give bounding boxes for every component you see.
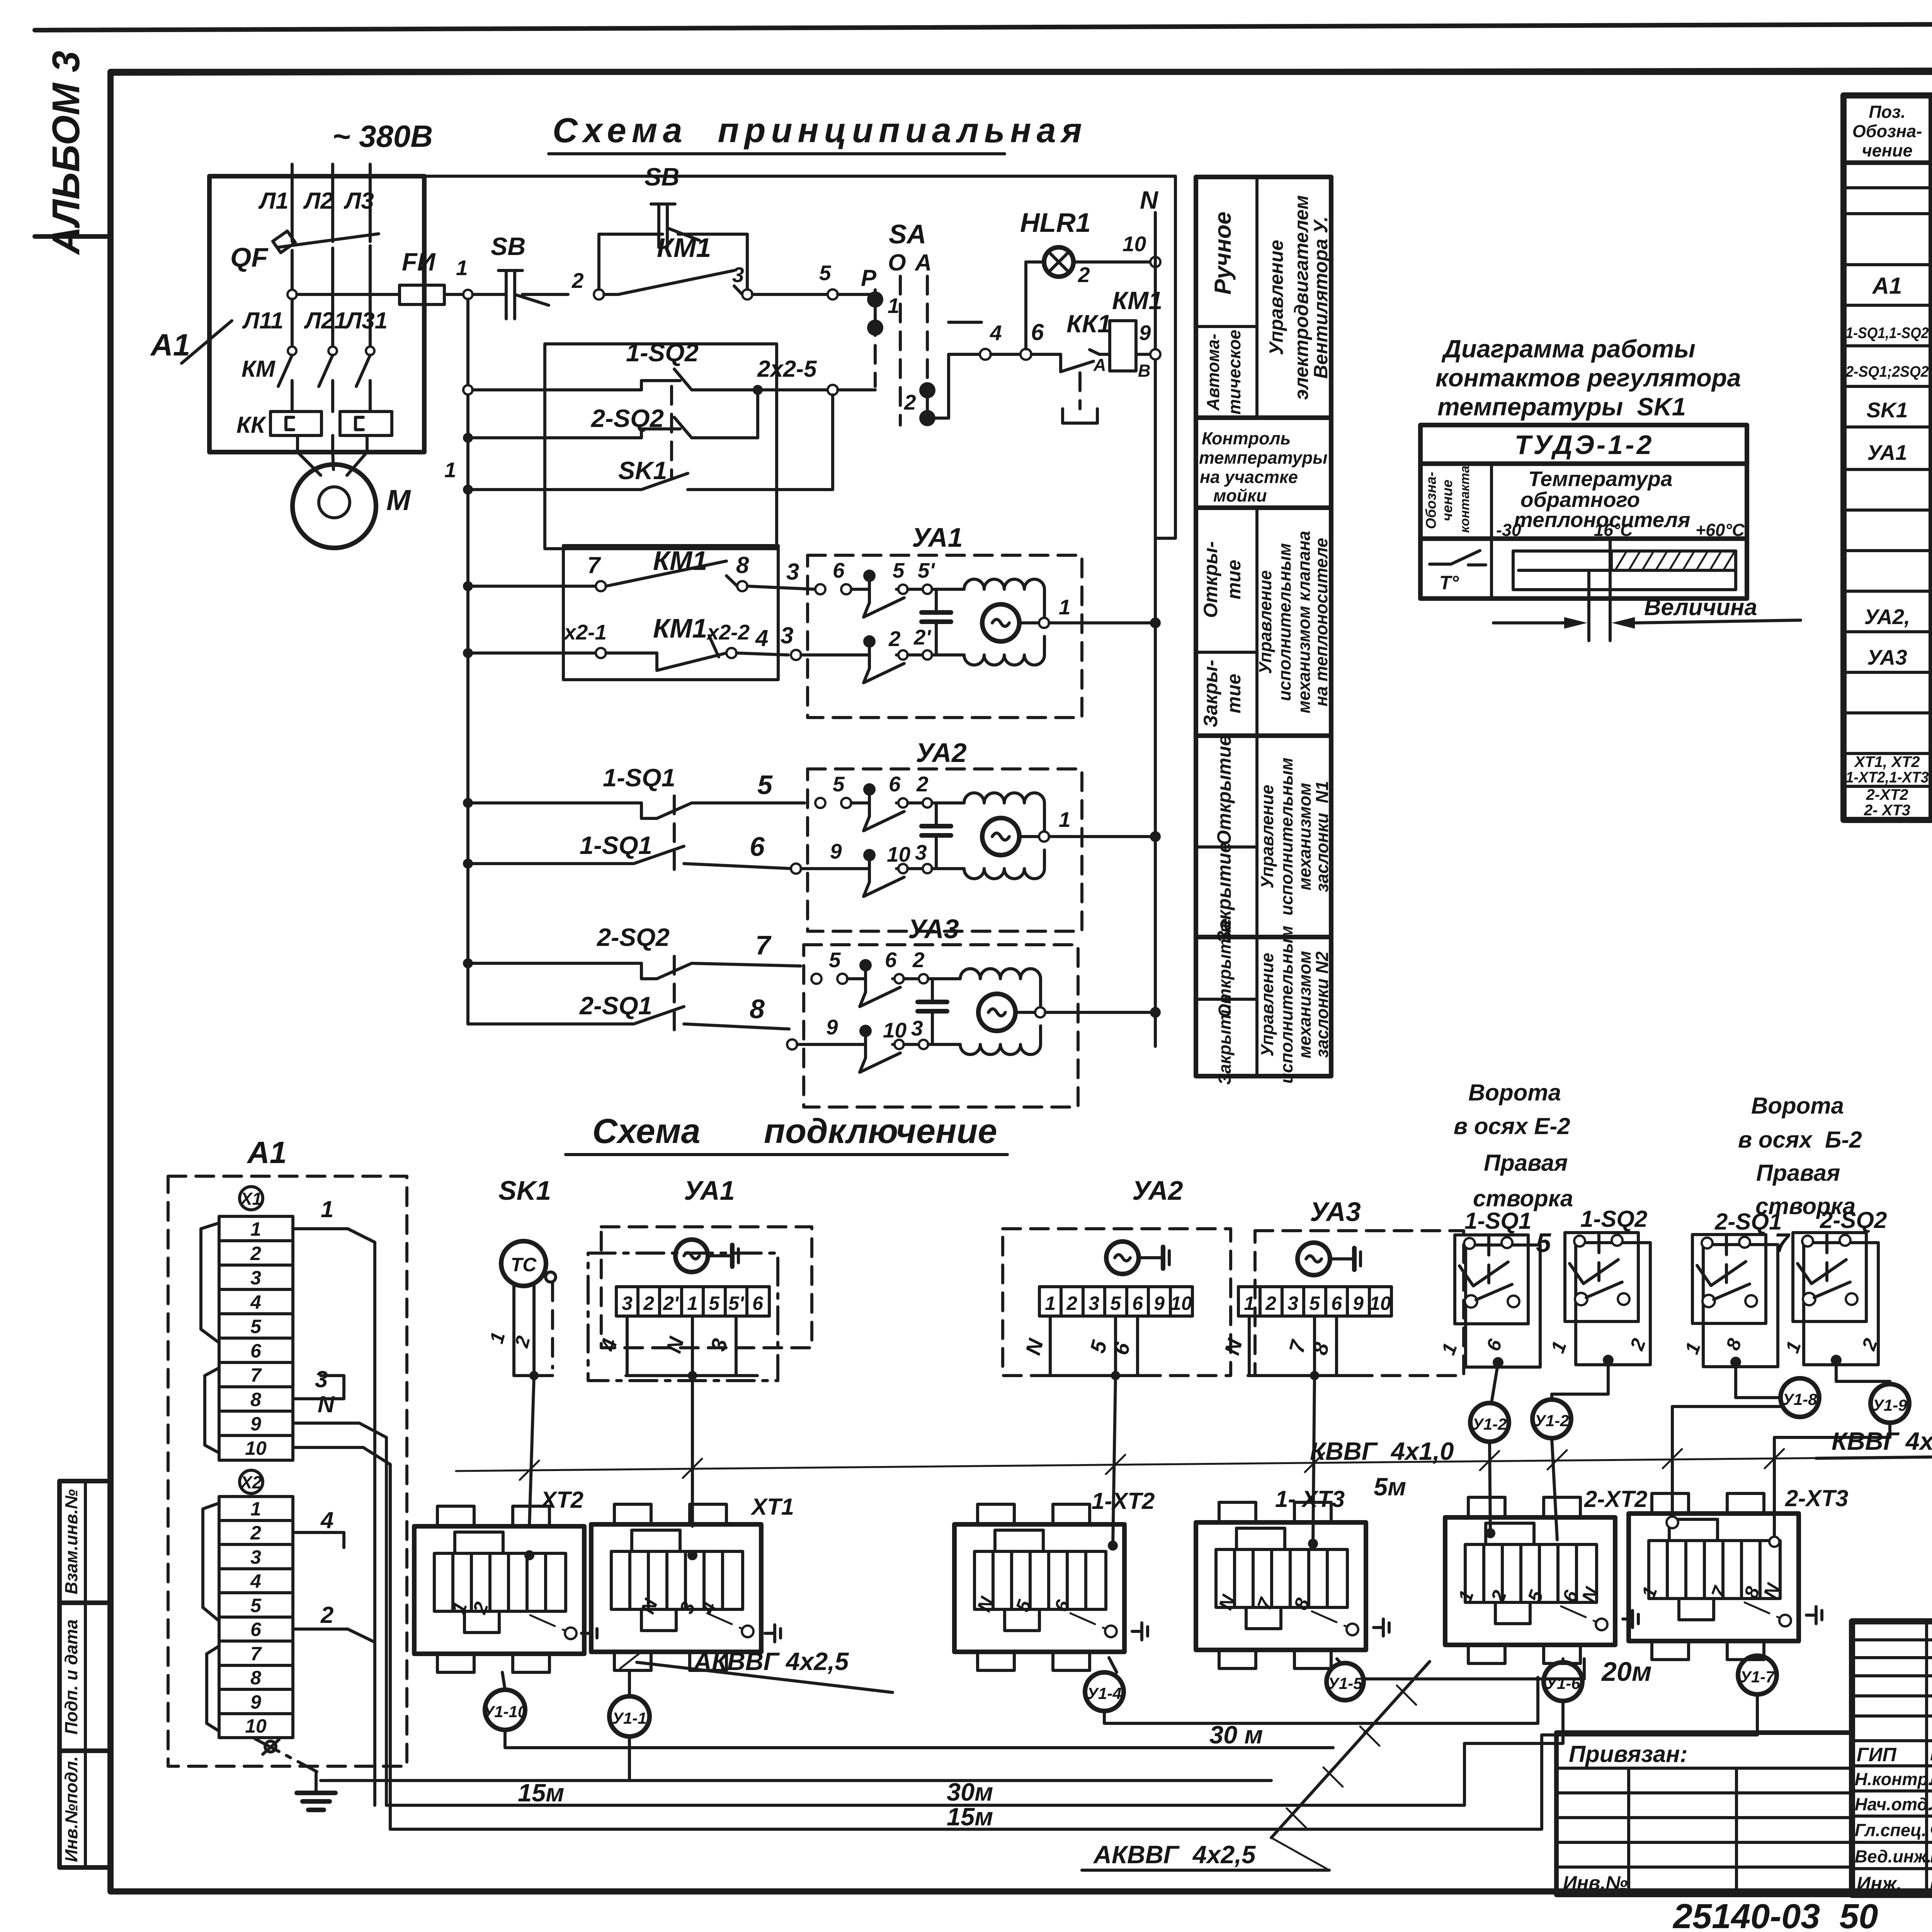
svg-text:УА2: УА2 xyxy=(1132,1175,1183,1206)
svg-text:Т°: Т° xyxy=(1439,572,1459,594)
svg-text:температуры: температуры xyxy=(1199,448,1328,468)
svg-text:6: 6 xyxy=(1132,1293,1143,1314)
enclosure box KM1 rows xyxy=(563,546,778,680)
svg-text:4: 4 xyxy=(990,321,1002,345)
table frame xyxy=(1196,177,1331,1076)
svg-text:контакта: контакта xyxy=(1458,466,1472,533)
svg-text:Управление: Управление xyxy=(1255,570,1275,674)
svg-text:Х1: Х1 xyxy=(239,1189,262,1209)
svg-text:У1-1: У1-1 xyxy=(612,1709,646,1727)
svg-text:в осях Б-2: в осях Б-2 xyxy=(1738,1127,1862,1153)
wire module out to bus xyxy=(1049,621,1155,624)
svg-text:Схема принципиальная: Схема принципиальная xyxy=(553,111,1087,150)
svg-text:2: 2 xyxy=(1265,1293,1276,1314)
svg-text:10: 10 xyxy=(1122,232,1146,256)
svg-text:2х2-5: 2х2-5 xyxy=(757,356,817,382)
svg-text:Л1: Л1 xyxy=(258,188,289,214)
svg-text:5: 5 xyxy=(250,1316,262,1337)
svg-text:механизмом: механизмом xyxy=(1295,951,1315,1058)
svg-text:8: 8 xyxy=(736,552,749,578)
svg-text:Инв.№подл.: Инв.№подл. xyxy=(61,1756,81,1862)
diagram bar outer xyxy=(1513,551,1736,590)
svg-text:1: 1 xyxy=(1244,1293,1255,1314)
svg-text:+60°С: +60°С xyxy=(1696,520,1745,540)
svg-text:УА2: УА2 xyxy=(916,738,967,768)
svg-text:6: 6 xyxy=(750,832,765,862)
column divider xyxy=(1490,464,1493,599)
svg-text:У1-8: У1-8 xyxy=(1782,1390,1817,1408)
node 3 xyxy=(742,289,752,299)
svg-text:1: 1 xyxy=(1059,595,1071,619)
svg-text:температуры SK1: температуры SK1 xyxy=(1437,393,1686,421)
svg-text:1-SQ1: 1-SQ1 xyxy=(1464,1208,1531,1234)
svg-text:У1-6: У1-6 xyxy=(1546,1674,1580,1692)
svg-text:2: 2 xyxy=(320,1602,333,1628)
svg-text:КВВГ 4х1,0: КВВГ 4х1,0 xyxy=(1832,1427,1932,1455)
У1-8 circle xyxy=(1781,1378,1819,1417)
svg-text:SK1: SK1 xyxy=(1867,398,1908,422)
dots where wires land in boxes xyxy=(524,1550,534,1560)
svg-text:1: 1 xyxy=(444,458,456,482)
node 6 xyxy=(1020,349,1031,360)
dashed link 1-SQ2/2-SQ2 xyxy=(670,386,673,479)
svg-text:5: 5 xyxy=(1536,1228,1551,1258)
svg-text:15м: 15м xyxy=(947,1803,993,1831)
ground stub ХТ2 xyxy=(582,1625,597,1642)
svg-text:1: 1 xyxy=(888,294,900,318)
top band lower line xyxy=(111,68,1932,73)
svg-text:9: 9 xyxy=(250,1413,261,1435)
svg-text:Подп. и дата: Подп. и дата xyxy=(61,1619,81,1735)
svg-text:Инж.: Инж. xyxy=(1857,1873,1902,1895)
svg-text:15м: 15м xyxy=(518,1779,564,1807)
svg-text:Л31: Л31 xyxy=(344,308,388,333)
svg-text:~ 380В: ~ 380В xyxy=(332,119,433,153)
svg-text:10: 10 xyxy=(1170,1293,1192,1314)
svg-text:5: 5 xyxy=(1309,1293,1320,1314)
wire SA contact2 to node 4 xyxy=(927,354,980,418)
svg-text:2: 2 xyxy=(250,1522,261,1544)
svg-text:заслонки N1: заслонки N1 xyxy=(1312,781,1332,892)
phase stub Л2 xyxy=(331,164,334,241)
diagonal trunk xyxy=(1271,1662,1430,1838)
svg-text:2: 2 xyxy=(571,269,584,293)
svg-text:9: 9 xyxy=(826,1015,838,1039)
svg-text:УА1: УА1 xyxy=(912,522,963,553)
svg-text:УА2,: УА2, xyxy=(1864,605,1910,629)
svg-text:1-SQ2: 1-SQ2 xyxy=(626,338,699,367)
svg-text:Управление: Управление xyxy=(1257,785,1277,889)
svg-text:А: А xyxy=(914,250,932,276)
У1-7 xyxy=(1756,1655,1759,1659)
svg-text:ХТ2: ХТ2 xyxy=(540,1487,583,1513)
contactor poles КМ xyxy=(241,308,388,412)
phase stub Л3 xyxy=(369,164,372,241)
node 10 xyxy=(1150,257,1160,267)
svg-text:5м: 5м xyxy=(1374,1473,1406,1501)
svg-text:В: В xyxy=(1138,361,1151,381)
svg-text:1- ХТ3: 1- ХТ3 xyxy=(1275,1486,1345,1512)
svg-text:Закрытие: Закрытие xyxy=(1215,994,1235,1085)
svg-text:5: 5 xyxy=(757,770,773,800)
X2 wires xyxy=(293,1507,375,1642)
svg-text:2: 2 xyxy=(904,390,916,414)
svg-text:КМ1: КМ1 xyxy=(1112,286,1162,315)
svg-text:3: 3 xyxy=(781,622,793,648)
dimension arrows xyxy=(1493,621,1566,624)
svg-text:ТС: ТС xyxy=(511,1254,537,1276)
svg-text:Автома-: Автома- xyxy=(1203,333,1223,411)
svg-text:О: О xyxy=(888,250,906,276)
svg-text:7: 7 xyxy=(755,930,772,960)
table outer xyxy=(1844,95,1932,820)
svg-text:Ворота: Ворота xyxy=(1751,1093,1844,1119)
motor M xyxy=(293,452,411,548)
svg-text:Нач.отд.: Нач.отд. xyxy=(1855,1794,1932,1814)
svg-text:Гл.спец.: Гл.спец. xyxy=(1855,1820,1927,1840)
svg-text:Ворота: Ворота xyxy=(1468,1080,1561,1105)
SK1 sensor xyxy=(486,1175,556,1526)
svg-text:Х2: Х2 xyxy=(239,1473,262,1492)
svg-text:1: 1 xyxy=(250,1498,261,1520)
svg-text:Контроль: Контроль xyxy=(1202,429,1291,448)
box ХТ1 xyxy=(591,1504,761,1670)
svg-text:Л11: Л11 xyxy=(242,308,284,333)
svg-text:2-SQ1: 2-SQ1 xyxy=(1714,1209,1782,1235)
switch 2-SQ2 xyxy=(1793,1233,1878,1366)
svg-text:5: 5 xyxy=(709,1293,720,1314)
svg-text:У1-10: У1-10 xyxy=(483,1702,527,1721)
svg-text:3: 3 xyxy=(250,1546,261,1568)
svg-text:1: 1 xyxy=(1045,1293,1056,1314)
X1 bracket xyxy=(201,1223,219,1343)
switch 1-SQ1 xyxy=(1455,1235,1540,1368)
dashed pole O xyxy=(899,276,902,425)
svg-text:9: 9 xyxy=(830,839,842,863)
svg-text:6: 6 xyxy=(1331,1293,1342,1314)
svg-text:5: 5 xyxy=(829,948,841,972)
svg-text:Открытие: Открытие xyxy=(1213,735,1235,845)
svg-text:5: 5 xyxy=(819,261,832,285)
terminal cells xyxy=(616,1287,769,1316)
svg-text:2-SQ1;2SQ2: 2-SQ1;2SQ2 xyxy=(1845,363,1929,380)
svg-text:ХТ1: ХТ1 xyxy=(750,1494,794,1520)
svg-text:25140-03 50: 25140-03 50 xyxy=(1672,1897,1878,1932)
svg-text:5': 5' xyxy=(918,558,935,582)
svg-text:1: 1 xyxy=(456,256,468,280)
КВВГ 4х1,0 main run xyxy=(456,1457,1932,1471)
svg-text:ХТ1, ХТ2: ХТ1, ХТ2 xyxy=(1854,753,1920,770)
svg-text:УА1: УА1 xyxy=(1867,440,1907,464)
row line under Ручное xyxy=(1196,325,1257,328)
svg-text:х2-1: х2-1 xyxy=(563,620,607,644)
svg-text:КК: КК xyxy=(236,412,267,438)
hatched zone xyxy=(1611,551,1736,570)
УА2 module xyxy=(791,738,1161,931)
svg-text:QF: QF xyxy=(230,242,269,272)
svg-text:У1-9: У1-9 xyxy=(1872,1396,1907,1414)
svg-text:N: N xyxy=(1140,186,1159,214)
svg-text:на теплоносителе: на теплоносителе xyxy=(1311,538,1331,706)
svg-text:Вентилятора У.: Вентилятора У. xyxy=(1310,216,1332,379)
svg-text:8: 8 xyxy=(250,1667,261,1689)
col Поз xyxy=(1929,95,1932,820)
svg-text:6: 6 xyxy=(250,1619,262,1640)
svg-text:мойки: мойки xyxy=(1213,486,1267,505)
svg-text:SB: SB xyxy=(645,163,679,191)
svg-text:2': 2' xyxy=(663,1293,679,1314)
УА3 connection box xyxy=(1220,1197,1464,1544)
thermal contact КК1 xyxy=(1031,310,1111,423)
svg-text:Обозна-: Обозна- xyxy=(1852,121,1922,141)
row lines xyxy=(1844,186,1932,189)
svg-text:КМ1: КМ1 xyxy=(657,233,711,263)
svg-text:исполнительным: исполнительным xyxy=(1277,926,1296,1084)
svg-text:2-SQ2: 2-SQ2 xyxy=(1820,1207,1887,1233)
wire 5 to SA xyxy=(838,293,875,296)
row 2-SQ2 xyxy=(463,395,758,443)
box ХТ2 xyxy=(414,1506,584,1672)
svg-text:SB: SB xyxy=(491,232,526,260)
svg-text:Л21: Л21 xyxy=(304,308,347,333)
svg-text:2- ХТ3: 2- ХТ3 xyxy=(1864,802,1910,819)
svg-text:УА1: УА1 xyxy=(684,1175,735,1206)
У1-10 drop xyxy=(502,1672,505,1690)
header row bottom xyxy=(1420,536,1747,541)
svg-text:исполнительным: исполнительным xyxy=(1277,758,1296,916)
svg-text:6: 6 xyxy=(885,948,897,972)
svg-text:У1-2: У1-2 xyxy=(1534,1412,1569,1430)
neutral N line xyxy=(1140,186,1159,1046)
bypass loop with push button SB xyxy=(599,163,747,289)
svg-text:подключение: подключение xyxy=(764,1112,997,1151)
svg-text:SK1: SK1 xyxy=(498,1175,551,1206)
svg-text:1-ХТ2: 1-ХТ2 xyxy=(1092,1488,1155,1514)
svg-text:4: 4 xyxy=(755,625,768,651)
switch 1-SQ2 xyxy=(1565,1233,1650,1366)
svg-text:2: 2 xyxy=(250,1243,261,1264)
row line under Открытие xyxy=(1196,651,1257,654)
control row wire from node 1 to SB xyxy=(473,293,506,296)
svg-text:1-SQ1: 1-SQ1 xyxy=(603,764,675,792)
svg-text:1: 1 xyxy=(1059,808,1071,832)
svg-text:А: А xyxy=(1093,355,1106,375)
svg-text:Налетова: Налетова xyxy=(1930,1871,1932,1893)
svg-text:Правая: Правая xyxy=(1756,1160,1840,1186)
svg-text:3: 3 xyxy=(911,1016,923,1040)
svg-text:заслонки N2: заслонки N2 xyxy=(1312,951,1332,1058)
svg-text:2-ХТ3: 2-ХТ3 xyxy=(1785,1485,1848,1511)
row line under заслонки №1 xyxy=(1196,935,1331,939)
box 2-ХТ2 xyxy=(1445,1497,1615,1663)
svg-text:3: 3 xyxy=(315,1366,328,1392)
svg-text:2: 2 xyxy=(916,772,929,796)
svg-text:электродвигателем: электродвигателем xyxy=(1291,195,1312,400)
svg-text:Н.контр.: Н.контр. xyxy=(1855,1769,1932,1789)
left grid verticals xyxy=(1925,1621,1928,1895)
svg-text:2: 2 xyxy=(912,948,925,972)
svg-text:Ручное: Ручное xyxy=(1210,212,1236,295)
switch 2-SQ1 xyxy=(1692,1235,1778,1367)
svg-text:УА3: УА3 xyxy=(1310,1197,1361,1227)
bus from node 1 down xyxy=(466,299,469,1024)
svg-text:тие: тие xyxy=(1223,674,1245,714)
svg-text:3: 3 xyxy=(250,1267,261,1289)
УА1 module xyxy=(791,522,1161,718)
X1 wires xyxy=(293,1196,390,1829)
row line under Закрытие xyxy=(1196,733,1331,738)
svg-text:5: 5 xyxy=(1110,1293,1121,1314)
title block outer xyxy=(1852,1621,1932,1895)
row line under Автоматическое xyxy=(1196,415,1331,420)
svg-text:6: 6 xyxy=(752,1293,764,1314)
svg-text:10: 10 xyxy=(1369,1293,1391,1314)
УА2 connection box xyxy=(1003,1175,1231,1546)
svg-text:У1-4: У1-4 xyxy=(1087,1684,1121,1702)
row line mid section 4 xyxy=(1196,845,1257,849)
svg-text:2-SQ1: 2-SQ1 xyxy=(579,992,652,1020)
svg-text:А1: А1 xyxy=(150,328,190,362)
enclosure box for SQ contacts xyxy=(545,344,777,549)
svg-text:7: 7 xyxy=(250,1364,262,1386)
svg-text:5': 5' xyxy=(728,1293,745,1314)
svg-text:9: 9 xyxy=(1139,321,1151,345)
svg-text:КК1: КК1 xyxy=(1066,310,1111,338)
svg-text:1: 1 xyxy=(687,1293,698,1314)
svg-text:1-SQ1,1-SQ2: 1-SQ1,1-SQ2 xyxy=(1846,325,1929,342)
svg-text:Температура: Температура xyxy=(1528,467,1672,491)
svg-text:Схема: Схема xyxy=(592,1112,701,1151)
terminal strip X2 xyxy=(203,1470,293,1738)
svg-text:М: М xyxy=(386,484,411,516)
svg-text:УА3: УА3 xyxy=(908,914,959,944)
svg-text:1: 1 xyxy=(250,1218,261,1240)
svg-text:9: 9 xyxy=(1353,1293,1364,1314)
svg-text:чение: чение xyxy=(1439,480,1455,521)
svg-text:30м: 30м xyxy=(947,1778,993,1806)
svg-text:Веселова: Веселова xyxy=(1930,1845,1932,1867)
svg-text:У1-5: У1-5 xyxy=(1328,1674,1362,1692)
svg-text:3: 3 xyxy=(622,1293,633,1314)
row 1-SQ2 xyxy=(463,338,875,395)
svg-text:3: 3 xyxy=(1088,1293,1099,1314)
svg-text:ГИП: ГИП xyxy=(1857,1744,1897,1765)
top band upper line xyxy=(35,22,1932,30)
ground at A1 bottom xyxy=(255,1739,335,1810)
svg-text:Откры-: Откры- xyxy=(1200,541,1221,618)
svg-text:10: 10 xyxy=(245,1437,267,1459)
svg-text:Л2: Л2 xyxy=(303,188,333,214)
cabinet A1 dashed box xyxy=(168,1135,407,1766)
diagram box xyxy=(1420,425,1747,599)
svg-text:5: 5 xyxy=(833,772,845,796)
svg-text:5: 5 xyxy=(893,558,905,582)
svg-text:2: 2 xyxy=(1078,263,1090,287)
svg-text:16°С: 16°С xyxy=(1594,520,1633,540)
svg-text:-30: -30 xyxy=(1496,520,1521,540)
box 1-ХТ2 xyxy=(954,1504,1124,1670)
svg-text:8: 8 xyxy=(750,994,765,1024)
svg-text:чение: чение xyxy=(1862,141,1913,160)
svg-text:3: 3 xyxy=(732,263,744,287)
svg-text:Веселова: Веселова xyxy=(1930,1768,1932,1789)
svg-text:А1: А1 xyxy=(247,1135,287,1170)
breaker QF xyxy=(230,231,379,346)
svg-text:в осях Е-2: в осях Е-2 xyxy=(1454,1113,1570,1139)
svg-text:Формат А2: Формат А2 xyxy=(1793,1928,1932,1932)
svg-text:9: 9 xyxy=(1154,1293,1165,1314)
svg-text:30 м: 30 м xyxy=(1209,1721,1263,1749)
lamp HLR1 xyxy=(1020,207,1151,349)
terminal strip X1 xyxy=(201,1187,293,1460)
svg-text:У1-7: У1-7 xyxy=(1740,1668,1775,1686)
dashed pole P xyxy=(874,290,877,386)
svg-text:ТУДЭ-1-2: ТУДЭ-1-2 xyxy=(1515,430,1654,460)
svg-text:10: 10 xyxy=(887,842,911,866)
svg-text:2-SQ2: 2-SQ2 xyxy=(596,923,670,951)
svg-text:2: 2 xyxy=(1066,1293,1077,1314)
svg-text:Диаграмма работы: Диаграмма работы xyxy=(1441,335,1696,363)
top bus xyxy=(209,176,1175,538)
box 2-ХТ3 xyxy=(1629,1493,1799,1660)
crossing ticks xyxy=(520,1449,1784,1480)
svg-text:Величина: Величина xyxy=(1644,594,1757,620)
left margin boxes xyxy=(60,1481,111,1867)
svg-text:8: 8 xyxy=(250,1389,261,1410)
inner vertical divider xyxy=(1255,177,1259,418)
svg-text:6: 6 xyxy=(833,558,845,582)
row х2-1 КМ1 х2-2 xyxy=(463,613,793,670)
svg-text:1-SQ1: 1-SQ1 xyxy=(580,831,652,859)
contactor coil КМ1 xyxy=(1110,286,1162,381)
svg-text:6: 6 xyxy=(250,1340,262,1362)
svg-text:Управление: Управление xyxy=(1265,240,1287,355)
node 4 xyxy=(980,349,991,360)
У1-2 circle b xyxy=(1532,1400,1571,1438)
node 2 xyxy=(594,289,604,299)
mid line xyxy=(1519,569,1736,572)
svg-text:2: 2 xyxy=(643,1293,654,1314)
svg-text:А1: А1 xyxy=(1872,273,1902,299)
svg-text:2-ХТ2: 2-ХТ2 xyxy=(1866,786,1908,803)
thermal relay КК heaters xyxy=(236,412,392,452)
svg-text:4: 4 xyxy=(250,1570,261,1592)
svg-text:10: 10 xyxy=(883,1018,907,1042)
svg-text:КМ1: КМ1 xyxy=(653,613,707,643)
name rows xyxy=(1852,1764,1932,1767)
svg-text:1-SQ2: 1-SQ2 xyxy=(1580,1206,1647,1232)
svg-text:Мариничев: Мариничев xyxy=(1930,1743,1932,1765)
У1-4 xyxy=(1109,1658,1117,1672)
svg-text:10: 10 xyxy=(245,1715,267,1737)
svg-text:Инв.№: Инв.№ xyxy=(1563,1872,1628,1894)
wire node4-node6 xyxy=(991,353,1020,356)
svg-text:механизмом клапана: механизмом клапана xyxy=(1294,531,1314,713)
svg-text:Р: Р xyxy=(861,265,877,291)
svg-text:КМ: КМ xyxy=(241,356,276,382)
ТУДЭ row xyxy=(1420,461,1747,466)
У1-2 circle a xyxy=(1470,1403,1509,1442)
svg-text:Взам.инв.№: Взам.инв.№ xyxy=(61,1489,81,1594)
У1-9 circle xyxy=(1871,1384,1909,1423)
row КМ1 7-8 xyxy=(463,546,815,591)
У1-5 xyxy=(1327,1663,1364,1700)
svg-text:Вед.инж.: Вед.инж. xyxy=(1855,1847,1932,1866)
svg-text:5: 5 xyxy=(250,1595,262,1616)
box A1 (control cabinet) xyxy=(209,176,424,452)
node 1 xyxy=(463,290,473,299)
album separator line xyxy=(35,234,111,239)
